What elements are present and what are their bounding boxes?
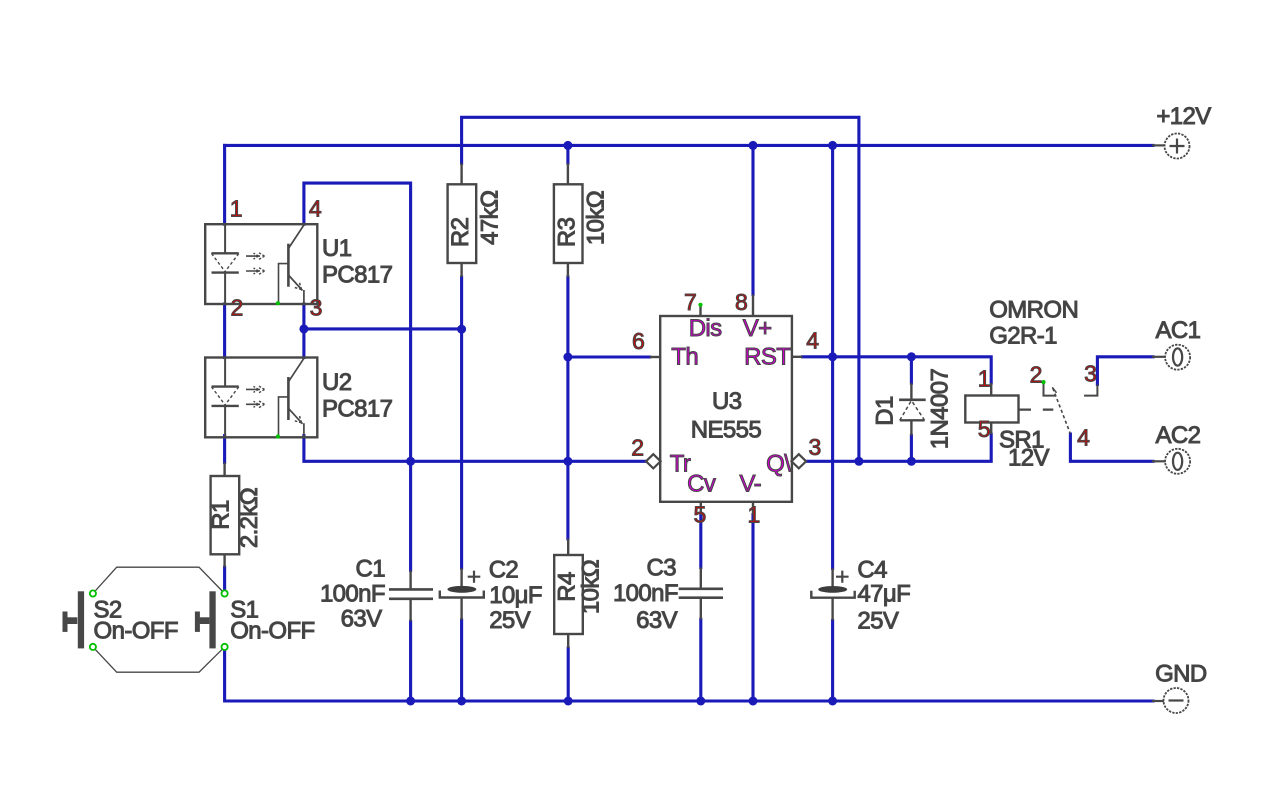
wire +12V rail bbox=[225, 144, 1153, 147]
wire C3 bottom to GND bbox=[699, 619, 702, 701]
svg-text:10kΩ: 10kΩ bbox=[583, 191, 610, 245]
junction C4 column on +12V rail bbox=[828, 141, 837, 150]
capacitor C1 bbox=[320, 556, 433, 633]
svg-text:100nF: 100nF bbox=[320, 581, 385, 608]
relay contact pin 2 bbox=[1044, 384, 1057, 396]
relay contact pin 3 bbox=[1084, 385, 1097, 396]
capacitor C4 polarized bbox=[811, 557, 910, 635]
wire D1 bottom branch bbox=[910, 436, 913, 462]
svg-text:R2: R2 bbox=[447, 217, 474, 247]
svg-text:OMRON: OMRON bbox=[989, 296, 1078, 323]
resistor R2 bbox=[447, 163, 504, 277]
junction R2 bottom node bbox=[457, 325, 466, 334]
svg-text:3: 3 bbox=[1084, 361, 1096, 387]
wire D1 top branch bbox=[910, 357, 913, 383]
wire R3 top from rail bbox=[566, 145, 569, 163]
terminal GND bbox=[1152, 660, 1207, 713]
relay coil bbox=[965, 396, 1018, 423]
wire +12V down to C4 through RST node bbox=[831, 145, 834, 568]
svg-text:100nF: 100nF bbox=[613, 580, 678, 607]
switch S2 bottom pad bbox=[90, 644, 96, 650]
svg-text:25V: 25V bbox=[857, 607, 898, 634]
wire R2 bottom down through pin3 net to C2 bbox=[460, 277, 463, 568]
wire Th line to 555 pin 6 bbox=[568, 355, 650, 358]
junction 555 pin1 on GND rail bbox=[749, 697, 758, 706]
svg-text:2.2kΩ: 2.2kΩ bbox=[236, 488, 263, 548]
svg-text:G2R-1: G2R-1 bbox=[989, 323, 1057, 350]
junction Q line / R2 loop column bbox=[854, 457, 863, 466]
svg-text:47kΩ: 47kΩ bbox=[477, 191, 504, 245]
svg-text:25V: 25V bbox=[489, 607, 530, 634]
svg-text:4: 4 bbox=[806, 328, 819, 354]
svg-text:U1: U1 bbox=[322, 235, 352, 262]
svg-text:1: 1 bbox=[748, 502, 760, 528]
resistor R3 bbox=[553, 163, 609, 277]
wire 555 pin 8 to +12V rail bbox=[751, 145, 754, 294]
relay mechanical link dashes bbox=[1019, 409, 1054, 411]
svg-text:+12V: +12V bbox=[1156, 103, 1211, 130]
svg-text:D1: D1 bbox=[872, 396, 899, 426]
svg-text:C3: C3 bbox=[647, 555, 677, 582]
junction U1 pin3 / U2 pin4 node bbox=[299, 324, 308, 333]
svg-text:63V: 63V bbox=[636, 607, 677, 634]
svg-text:5: 5 bbox=[694, 502, 706, 528]
svg-text:Cv: Cv bbox=[687, 470, 716, 497]
svg-text:C4: C4 bbox=[857, 557, 887, 584]
wire 555 pin 1 to GND bbox=[751, 515, 754, 701]
svg-text:On-OFF: On-OFF bbox=[230, 617, 314, 644]
wire relay pin 4 to AC2 bbox=[1070, 434, 1153, 461]
diode D1 bbox=[872, 369, 954, 450]
svg-text:Th: Th bbox=[671, 343, 698, 370]
resistor R1 bbox=[208, 463, 264, 568]
svg-text:PC817: PC817 bbox=[322, 262, 393, 289]
svg-text:U3: U3 bbox=[712, 388, 742, 415]
wire R1 bottom to S1 top pad bbox=[223, 567, 226, 590]
wire U1 pin3 down to U2 pin4 bbox=[302, 304, 305, 358]
svg-text:10μF: 10μF bbox=[489, 582, 542, 609]
switch S1 top pad bbox=[222, 590, 228, 596]
junction R3 top on +12V rail bbox=[563, 141, 572, 150]
wire R3 bottom to Th node bbox=[566, 277, 569, 357]
wire Q output net pin3 to relay coil pin 5 bbox=[806, 434, 991, 461]
svg-text:On-OFF: On-OFF bbox=[94, 617, 178, 644]
svg-text:PC817: PC817 bbox=[322, 395, 393, 422]
svg-text:4: 4 bbox=[1077, 424, 1090, 450]
wire Tr node down to C1 bbox=[409, 461, 412, 570]
resistor R4 bbox=[554, 539, 605, 648]
wire loop U1 pin 4 up and over to Tr column bbox=[304, 183, 411, 461]
svg-text:GND: GND bbox=[1155, 660, 1207, 687]
wire C2 bottom to GND bbox=[460, 620, 463, 701]
wire 555 pin 5 to C3 bbox=[699, 515, 702, 568]
svg-text:AC2: AC2 bbox=[1156, 422, 1201, 449]
svg-text:NE555: NE555 bbox=[691, 416, 762, 443]
svg-text:R1: R1 bbox=[208, 500, 235, 530]
junction R4 on GND rail bbox=[564, 697, 573, 706]
junction R3 bottom / Th node bbox=[563, 353, 572, 362]
switch S1 bottom pad bbox=[222, 644, 228, 650]
junction C4 on GND rail bbox=[828, 697, 837, 706]
wire net U1 pin3 / U2 pin4 / R2 bottom bbox=[304, 327, 462, 330]
svg-text:63V: 63V bbox=[341, 606, 382, 633]
svg-text:5: 5 bbox=[978, 416, 990, 442]
svg-text:Dis: Dis bbox=[689, 315, 722, 342]
svg-text:RST: RST bbox=[744, 343, 791, 370]
junction Q line / D1 bottom bbox=[907, 457, 916, 466]
terminal AC2 bbox=[1152, 422, 1201, 474]
wire C1 bottom to GND bbox=[409, 621, 412, 701]
svg-text:1: 1 bbox=[230, 195, 242, 221]
junction Tr line / C1 column bbox=[406, 457, 415, 466]
svg-text:2: 2 bbox=[631, 435, 643, 461]
timer U3 NE555 bbox=[646, 295, 806, 515]
wire R4 bottom to GND bbox=[567, 648, 570, 701]
wire C4 bottom to GND bbox=[831, 620, 834, 701]
junction 555 pin8 on +12V rail bbox=[749, 141, 758, 150]
wire U1 pin 2 to U2 top bbox=[223, 304, 226, 358]
wire Th-Tr vertical down to R4 bbox=[566, 357, 569, 539]
svg-text:1N4007: 1N4007 bbox=[927, 369, 954, 450]
svg-text:R4: R4 bbox=[554, 572, 581, 602]
svg-text:7: 7 bbox=[684, 289, 696, 315]
svg-text:2: 2 bbox=[231, 295, 243, 321]
junction RST line / C4 column bbox=[828, 352, 837, 361]
svg-text:6: 6 bbox=[632, 328, 644, 354]
switch S2 On-OFF pushbutton bbox=[63, 591, 178, 648]
svg-text:U2: U2 bbox=[322, 369, 352, 396]
terminal AC1 bbox=[1152, 317, 1201, 370]
svg-text:2: 2 bbox=[1030, 361, 1042, 387]
svg-text:R3: R3 bbox=[553, 217, 580, 247]
svg-text:AC1: AC1 bbox=[1156, 317, 1201, 344]
junction C2 on GND rail bbox=[457, 697, 466, 706]
wire R2 top loop over to Q column bbox=[462, 117, 859, 461]
svg-text:1: 1 bbox=[978, 366, 990, 392]
wire U2 pin3 to 555 Tr pin bbox=[304, 436, 647, 462]
switch frame octagon bbox=[93, 567, 225, 672]
terminal +12V bbox=[1152, 103, 1211, 158]
wire GND rail from S1 bottom pad bbox=[225, 651, 1153, 702]
junction C3 on GND rail bbox=[696, 697, 705, 706]
svg-text:3: 3 bbox=[310, 295, 322, 321]
wire RST net pin4 to relay coil pin 1 bbox=[803, 357, 992, 383]
junction RST line / D1 top bbox=[907, 352, 916, 361]
switch S1 On-OFF pushbutton bbox=[195, 591, 315, 648]
svg-text:12V: 12V bbox=[1008, 445, 1049, 472]
svg-text:Q\: Q\ bbox=[766, 450, 791, 477]
junction Tr line / R4 column bbox=[563, 457, 572, 466]
svg-text:4: 4 bbox=[309, 195, 322, 221]
svg-text:8: 8 bbox=[735, 289, 747, 315]
optocoupler U2 PC817 bbox=[205, 358, 392, 439]
switch S2 top pad bbox=[90, 590, 96, 596]
555 Q pin diamond bbox=[792, 454, 807, 468]
wire relay pin 3 to AC1 bbox=[1097, 357, 1153, 385]
optocoupler U1 PC817 bbox=[205, 224, 392, 305]
relay SR1 OMRON G2R-1 bbox=[965, 296, 1097, 471]
svg-text:3: 3 bbox=[809, 434, 821, 460]
relay contact blade bbox=[1052, 387, 1056, 393]
555 Tr pin diamond bbox=[646, 454, 661, 468]
svg-text:C1: C1 bbox=[356, 556, 386, 583]
capacitor C3 bbox=[613, 555, 723, 635]
wire left drop from +12V rail to U1 pin 1 bbox=[223, 145, 226, 224]
wire U2 bottom to R1 top bbox=[223, 436, 226, 463]
svg-text:V+: V+ bbox=[743, 315, 772, 342]
svg-text:10kΩ: 10kΩ bbox=[578, 560, 605, 614]
capacitor C2 polarized bbox=[440, 557, 542, 635]
svg-text:47μF: 47μF bbox=[857, 581, 910, 608]
junction C1 on GND rail bbox=[406, 697, 415, 706]
svg-text:C2: C2 bbox=[489, 557, 519, 584]
svg-text:V-: V- bbox=[740, 470, 761, 497]
